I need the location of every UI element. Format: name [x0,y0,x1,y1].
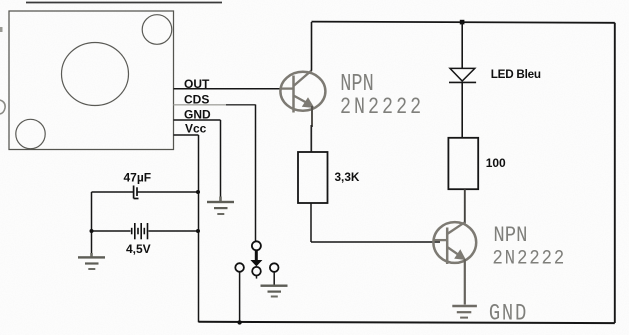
wire Q1 emitter down to R1 [310,106,313,152]
sensor lens circle big [62,43,129,106]
wire R1 to Q2 base [311,241,440,243]
svg-text:2N2222: 2N2222 [340,94,424,121]
wire CDS vertical to jack [255,105,257,241]
ground jack right [261,285,288,298]
pin label GND [184,108,211,122]
label NPN Q1 [340,71,373,98]
pin label OUT [184,77,210,91]
svg-text:4,5V: 4,5V [126,242,151,256]
ground Q2 emitter [452,306,477,318]
sensor module U1 body [9,11,174,150]
jack J1 right terminal [270,263,279,272]
sensor circle top-right [142,15,172,45]
svg-text:Vcc: Vcc [185,122,207,136]
transistor Q1 [280,71,325,113]
wire Vcc horizontal [174,134,199,136]
capacitor C1 47uF [92,186,199,199]
wire jack left to bottom rail [239,272,241,322]
wire OUT to Q1 base [174,88,293,90]
wire GND horizontal [174,119,221,121]
transistor Q2 [433,222,476,264]
label 2N2222 Q1 [340,94,424,121]
wire Q2 emitter down [464,259,466,305]
wire R1 bottom down [310,203,312,242]
top rail wire [312,22,615,23]
ground battery left [78,253,105,270]
wire Q1 collector up [311,22,313,71]
svg-text:NPN: NPN [493,224,527,249]
label 4,5V [126,242,151,256]
jack J1 arrow [250,251,262,267]
svg-text:LED Bleu: LED Bleu [491,68,541,81]
pin label CDS [184,92,209,106]
label NPN Q2 [493,224,527,249]
svg-text:GND: GND [489,301,528,327]
label LED Bleu [491,68,541,81]
bottom rail wire [199,322,615,323]
wire CDS horizontal [174,104,256,106]
label 3,3K [335,170,360,184]
label 100 [486,156,506,170]
jack J1 top terminal [252,241,261,250]
wire GND vertical [220,120,222,198]
right edge wire [614,23,616,323]
svg-text:2N2222: 2N2222 [492,246,566,270]
svg-text:47µF: 47µF [124,170,152,184]
junction dot LED top [460,20,465,25]
junction dot battery left [90,229,94,233]
svg-text:3,3K: 3,3K [335,170,360,184]
battery BT1 4,5V [92,223,199,239]
LED D1 [449,22,476,138]
jack J1 bottom terminal [252,267,261,279]
wire jack right to ground [273,272,275,284]
label 2N2222 Q2 [492,246,566,270]
wire R2 to Q2 collector [464,189,466,223]
pin label Vcc [185,122,207,136]
resistor R2 100 [448,138,478,189]
junction dot cap right [196,190,200,194]
label 47uF [124,170,152,184]
label GND [489,301,528,327]
svg-text:100: 100 [486,156,506,170]
junction dot battery right [196,229,200,233]
ground under GND pin [207,197,234,216]
junction dot jack rail [237,320,241,324]
wire battery left vertical [91,192,93,255]
resistor R1 3,3K [298,152,328,203]
sensor circle bottom-left [16,119,45,148]
wire Vcc vertical down to bottom rail [198,135,200,322]
jack J1 left terminal [235,263,244,272]
